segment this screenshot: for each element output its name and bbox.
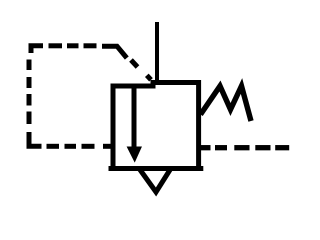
wire: right outlet port stub and dashed line xyxy=(201,145,289,150)
flow path arrow (normally-open path, pointing down) xyxy=(127,85,141,162)
valve body U1 (envelope box, stepped top edge) xyxy=(111,83,201,169)
pilot line: left vertical dashed run xyxy=(27,60,32,125)
pilot line: bend dash and diagonal dashed run to junction xyxy=(102,46,151,80)
pilot line: top horizontal dashed run with corner xyxy=(31,46,97,53)
wire: pressure supply line (vertical inlet) xyxy=(155,22,159,83)
spring K1 (zigzag on right side of valve body) xyxy=(201,86,252,121)
pilot line: bottom horizontal dashed run with corner into valve left port xyxy=(29,132,111,146)
drain/vent triangle (tank symbol under valve) xyxy=(140,169,171,192)
